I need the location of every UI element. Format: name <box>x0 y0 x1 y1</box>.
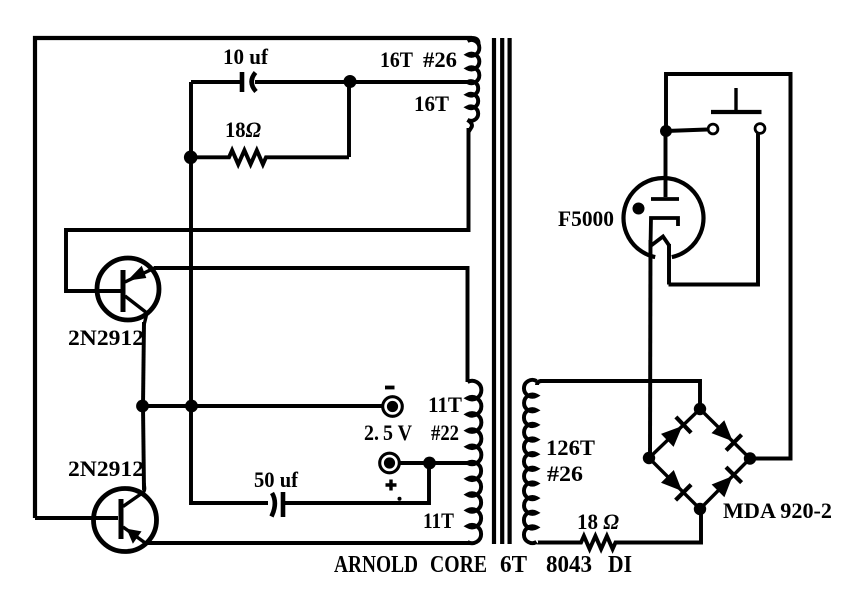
bridge diode D4 (bottom-right arm) <box>713 467 742 496</box>
transistor Q2 emitter diagonal with PNP arrow <box>123 527 146 544</box>
wire: cathode lead down to bridge left corner <box>648 240 652 458</box>
junction dot bridge top <box>694 403 706 415</box>
junction dot tube anode / switch node <box>660 125 672 137</box>
bridge diode D1 (left-top arm) <box>662 417 691 446</box>
tiny period mark <box>398 497 402 501</box>
transformer T1 winding 11T (upper secondary) <box>468 381 482 464</box>
junction dot collectors node <box>136 400 149 413</box>
wire: node row to minus terminal <box>142 404 383 408</box>
transistor Q1 2N2912 circle <box>97 258 159 320</box>
svg-text:#26: #26 <box>547 461 583 486</box>
transformer T1 winding 11T (lower secondary) <box>468 462 482 543</box>
transistor Q1 emitter diagonal with PNP arrow <box>125 267 155 282</box>
label plus sign <box>386 480 397 491</box>
transformer T1 laminated core (three bars) <box>494 38 510 544</box>
svg-text:18Ω: 18Ω <box>225 117 262 142</box>
junction dot R1 left node <box>184 151 198 165</box>
pushbutton switch S1 right contact <box>755 124 765 134</box>
output terminal plus (double circle) <box>380 453 400 473</box>
junction dot C1/R1 right node <box>344 75 357 88</box>
bridge diode D3 (left-bottom arm) <box>662 471 691 500</box>
wire: bottom rail from Q2 emitter to lower 11T bottom <box>145 541 470 545</box>
wire: switch right contact down and left to tube trigger <box>669 134 759 285</box>
wire: junction to switch left contact <box>666 130 707 132</box>
svg-text:2N2912: 2N2912 <box>68 456 144 481</box>
flash tube V1 cathode bar with hook <box>651 218 679 246</box>
svg-text:11T: 11T <box>428 392 462 417</box>
wire: outer frame (left rail and top rail) <box>35 38 472 518</box>
flash tube V1 filament chevron <box>651 237 670 247</box>
wire: 126T top to bridge top corner <box>540 381 700 409</box>
capacitor C2 50 uf plates <box>272 492 284 517</box>
transistor Q1 base bar <box>121 270 126 312</box>
svg-text:#22: #22 <box>431 420 459 445</box>
svg-text:50 uf: 50 uf <box>254 467 299 492</box>
svg-text:11T: 11T <box>423 508 454 533</box>
pushbutton switch S1 left contact <box>708 124 718 134</box>
capacitor C2 right wire up to plus node <box>285 463 429 503</box>
wire: top rail down to switch junction <box>664 72 668 131</box>
wire: long vertical bus down to 50uf row <box>191 82 268 503</box>
wire: 16T tap going left <box>350 80 471 84</box>
flash tube V1 gas dot <box>633 203 645 215</box>
svg-text:8043: 8043 <box>546 552 592 578</box>
svg-text:2N2912: 2N2912 <box>68 325 144 350</box>
resistor R1 18 ohm row <box>191 150 349 164</box>
transistor Q2 2N2912 circle <box>94 489 157 552</box>
svg-text:MDA 920-2: MDA 920-2 <box>723 498 832 523</box>
flash tube V1 anode bar <box>651 197 679 201</box>
svg-text:2. 5 V: 2. 5 V <box>364 420 412 445</box>
svg-text:126T: 126T <box>546 435 595 460</box>
svg-text:CORE: CORE <box>430 552 487 578</box>
svg-text:F5000: F5000 <box>558 206 614 231</box>
svg-text:ARNOLD: ARNOLD <box>334 552 418 578</box>
flash tube V1 F5000 envelope (circle with bottom gap) <box>624 178 704 257</box>
transistor Q1 collector diagonal <box>125 296 146 325</box>
caption ARNOLD CORE 6T 8043 DI <box>334 552 632 578</box>
svg-text:DI: DI <box>608 552 632 578</box>
junction dot bridge right <box>744 452 756 464</box>
transformer T1 winding 126T #26 (right side) <box>524 380 542 543</box>
transistor Q2 base bar <box>119 499 124 539</box>
wire: Q1 collector down to node row <box>143 322 144 406</box>
wire: vertical from C1 right node to R1 row <box>347 82 351 157</box>
capacitor C1 10 uf right wire <box>255 80 350 84</box>
svg-text:10 uf: 10 uf <box>223 44 269 69</box>
wire: tube anode lead <box>664 131 668 197</box>
junction dot bridge left <box>643 452 655 464</box>
transformer T1 winding 16T #26 (top section) <box>472 38 479 44</box>
junction dot bus node <box>185 400 198 413</box>
wire: Q2 base lead from frame <box>35 516 118 520</box>
svg-text:#26: #26 <box>423 47 457 72</box>
capacitor C1 left wire <box>191 80 240 84</box>
wire: 16T winding bottom down, left, down to Q1 base <box>66 128 469 291</box>
svg-text:16T: 16T <box>380 47 413 72</box>
bridge rectifier MDA 920-2 diamond arms <box>649 409 750 509</box>
transistor Q2 collector diagonal <box>123 483 145 507</box>
wire: Q1 emitter to upper 11T winding top <box>154 268 468 382</box>
wire: trigger lead down from chevron right leg <box>667 244 671 285</box>
wire: bridge right corner to right rail to top rail <box>666 74 791 459</box>
pushbutton switch S1 actuator bar and stem <box>711 88 762 112</box>
transformer T1 winding 16T (second section) <box>468 81 479 121</box>
output terminal minus (double circle) <box>383 397 403 417</box>
label 16T #26 <box>380 47 457 72</box>
svg-text:16T: 16T <box>414 91 449 116</box>
junction dot plus node <box>423 457 436 470</box>
capacitor C1 10 uf plates <box>242 72 256 92</box>
resistor R2 18 ohm and bottom wire to bridge bottom <box>538 509 701 549</box>
svg-text:6T: 6T <box>500 552 527 578</box>
bridge diode D2 (top-right arm) <box>712 421 741 450</box>
junction dot bridge bottom <box>694 503 706 515</box>
wire: plus terminal to center tap <box>399 461 472 465</box>
wire: Q2 collector up to node row <box>143 406 144 490</box>
svg-text:18 Ω: 18 Ω <box>577 509 620 534</box>
label minus sign <box>385 386 395 390</box>
